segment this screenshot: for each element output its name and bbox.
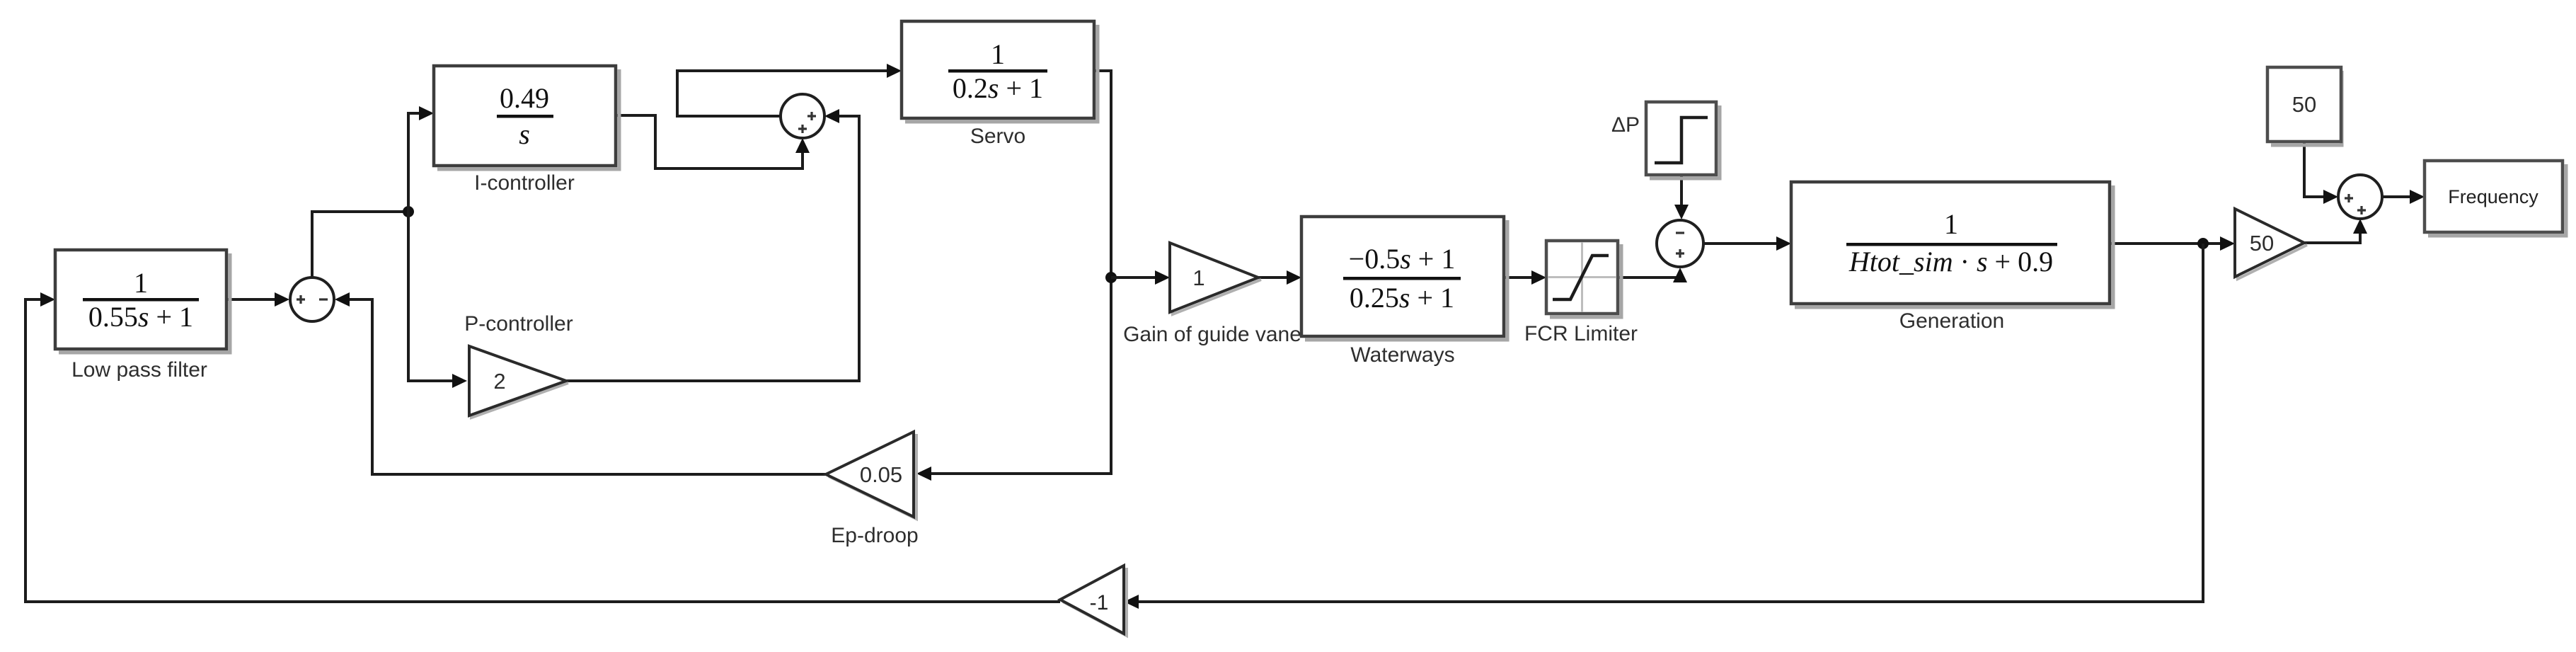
svg-text:0.2s + 1: 0.2s + 1 bbox=[953, 72, 1043, 104]
wire junction A down to P-controller input bbox=[408, 212, 467, 388]
wire junction B to Gain of guide vane input bbox=[1111, 270, 1170, 285]
label Low pass filter bbox=[71, 358, 207, 382]
block FCR Limiter (saturation) bbox=[1546, 241, 1621, 317]
block I-controller (transfer fcn 0.49/s) bbox=[434, 66, 619, 169]
svg-text:ΔP: ΔP bbox=[1611, 113, 1640, 137]
svg-text:Frequency: Frequency bbox=[2448, 186, 2538, 207]
svg-text:Waterways: Waterways bbox=[1350, 343, 1454, 367]
gain Gain of guide vane value 1 bbox=[1170, 243, 1261, 314]
wire Step output down to Sum3 top bbox=[1674, 175, 1689, 219]
svg-text:1: 1 bbox=[1944, 208, 1958, 240]
wire -1 gain output left, up to Low pass filter input bbox=[25, 292, 1060, 602]
block Waterways (transfer fcn (-0.5s+1)/(0.25s+1)) bbox=[1301, 217, 1507, 340]
wire guide vane output to Waterways input bbox=[1258, 270, 1301, 285]
svg-text:Low pass filter: Low pass filter bbox=[71, 358, 207, 382]
wire Generation output to Gain 50 input bbox=[2110, 236, 2235, 251]
label Servo bbox=[970, 125, 1025, 148]
sum S2 bbox=[781, 94, 824, 138]
block Servo (transfer fcn 1/(0.2s+1)) bbox=[902, 21, 1098, 122]
label Generation bbox=[1899, 309, 2004, 333]
svg-text:P-controller: P-controller bbox=[464, 312, 573, 336]
svg-text:Generation: Generation bbox=[1899, 309, 2004, 333]
wire Sum3 output to Generation input bbox=[1704, 236, 1791, 251]
svg-text:Servo: Servo bbox=[970, 125, 1025, 148]
label P-controller bbox=[464, 312, 573, 336]
svg-text:Htot_sim · s + 0.9: Htot_sim · s + 0.9 bbox=[1848, 246, 2053, 278]
svg-text:I-controller: I-controller bbox=[474, 171, 575, 195]
block Generation (transfer fcn 1/(Htot_sim*s+0.9)) bbox=[1791, 182, 2113, 307]
wire Sum4 output to Frequency block bbox=[2382, 190, 2425, 204]
wire FCR Limiter output to Sum3 bottom bbox=[1618, 268, 1687, 282]
wire junction A up to I-controller input bbox=[408, 106, 434, 212]
sum S4 bbox=[2338, 175, 2382, 219]
svg-text:0.49: 0.49 bbox=[500, 82, 549, 114]
wire Sum2 output left, up and right to Servo input bbox=[677, 64, 902, 116]
svg-text:1: 1 bbox=[134, 267, 148, 299]
wire Servo output right, down to Ep-droop input bbox=[916, 71, 1111, 481]
svg-text:0.25s + 1: 0.25s + 1 bbox=[1350, 282, 1454, 314]
gain 50 bbox=[2235, 209, 2307, 279]
wire LPF output to Sum1 bbox=[226, 292, 289, 307]
wire Ep-droop output left, up to Sum1 right bbox=[335, 292, 826, 474]
label Waterways bbox=[1350, 343, 1454, 367]
wire Gain 50 output to Sum4 bottom bbox=[2304, 219, 2367, 243]
svg-text:0.05: 0.05 bbox=[860, 462, 902, 487]
gain P-controller value 2 bbox=[469, 346, 568, 418]
wire I-controller output to Sum2 bottom bbox=[616, 115, 810, 168]
label dP bbox=[1611, 113, 1640, 137]
svg-text:50: 50 bbox=[2292, 92, 2316, 117]
wire Sum1 output up and right to junction A bbox=[312, 212, 408, 277]
svg-text:-1: -1 bbox=[1090, 591, 1109, 614]
svg-text:Gain of guide vane: Gain of guide vane bbox=[1123, 323, 1301, 346]
block Frequency (outport display) bbox=[2425, 161, 2566, 236]
block Step dP bbox=[1646, 102, 1720, 178]
sum S1 bbox=[290, 278, 334, 321]
svg-text:s: s bbox=[519, 118, 530, 150]
label Ep-droop bbox=[831, 524, 918, 547]
svg-text:Ep-droop: Ep-droop bbox=[831, 524, 918, 547]
wire Constant 50 output down and right to Sum4 left bbox=[2304, 142, 2338, 204]
gain Ep-droop value 0.05 (points left) bbox=[826, 432, 916, 519]
node C junction dot after Generation bbox=[2197, 238, 2209, 249]
svg-text:50: 50 bbox=[2250, 231, 2274, 256]
svg-text:FCR Limiter: FCR Limiter bbox=[1524, 322, 1638, 345]
gain -1 (points left) bbox=[1060, 566, 1127, 636]
block Constant 50 bbox=[2267, 67, 2342, 145]
svg-text:−0.5s + 1: −0.5s + 1 bbox=[1349, 243, 1456, 275]
svg-text:2: 2 bbox=[493, 369, 505, 394]
node A junction dot bbox=[403, 206, 414, 217]
svg-text:1: 1 bbox=[991, 38, 1005, 70]
label I-controller bbox=[474, 171, 575, 195]
node B junction dot on servo feedback line bbox=[1105, 272, 1117, 283]
label FCR Limiter bbox=[1524, 322, 1638, 345]
label Gain of guide vane bbox=[1123, 323, 1301, 346]
svg-text:0.55s + 1: 0.55s + 1 bbox=[88, 301, 193, 333]
svg-text:1: 1 bbox=[1192, 265, 1204, 290]
wire P-controller output up to Sum2 right bbox=[565, 109, 859, 381]
block Low pass filter (transfer fcn 1/(0.55s+1)) bbox=[55, 250, 230, 353]
wire junction C down and left to -1 gain input bbox=[1124, 244, 2203, 609]
wire Waterways output to FCR Limiter input bbox=[1504, 270, 1546, 285]
sum S3 bbox=[1657, 220, 1703, 267]
